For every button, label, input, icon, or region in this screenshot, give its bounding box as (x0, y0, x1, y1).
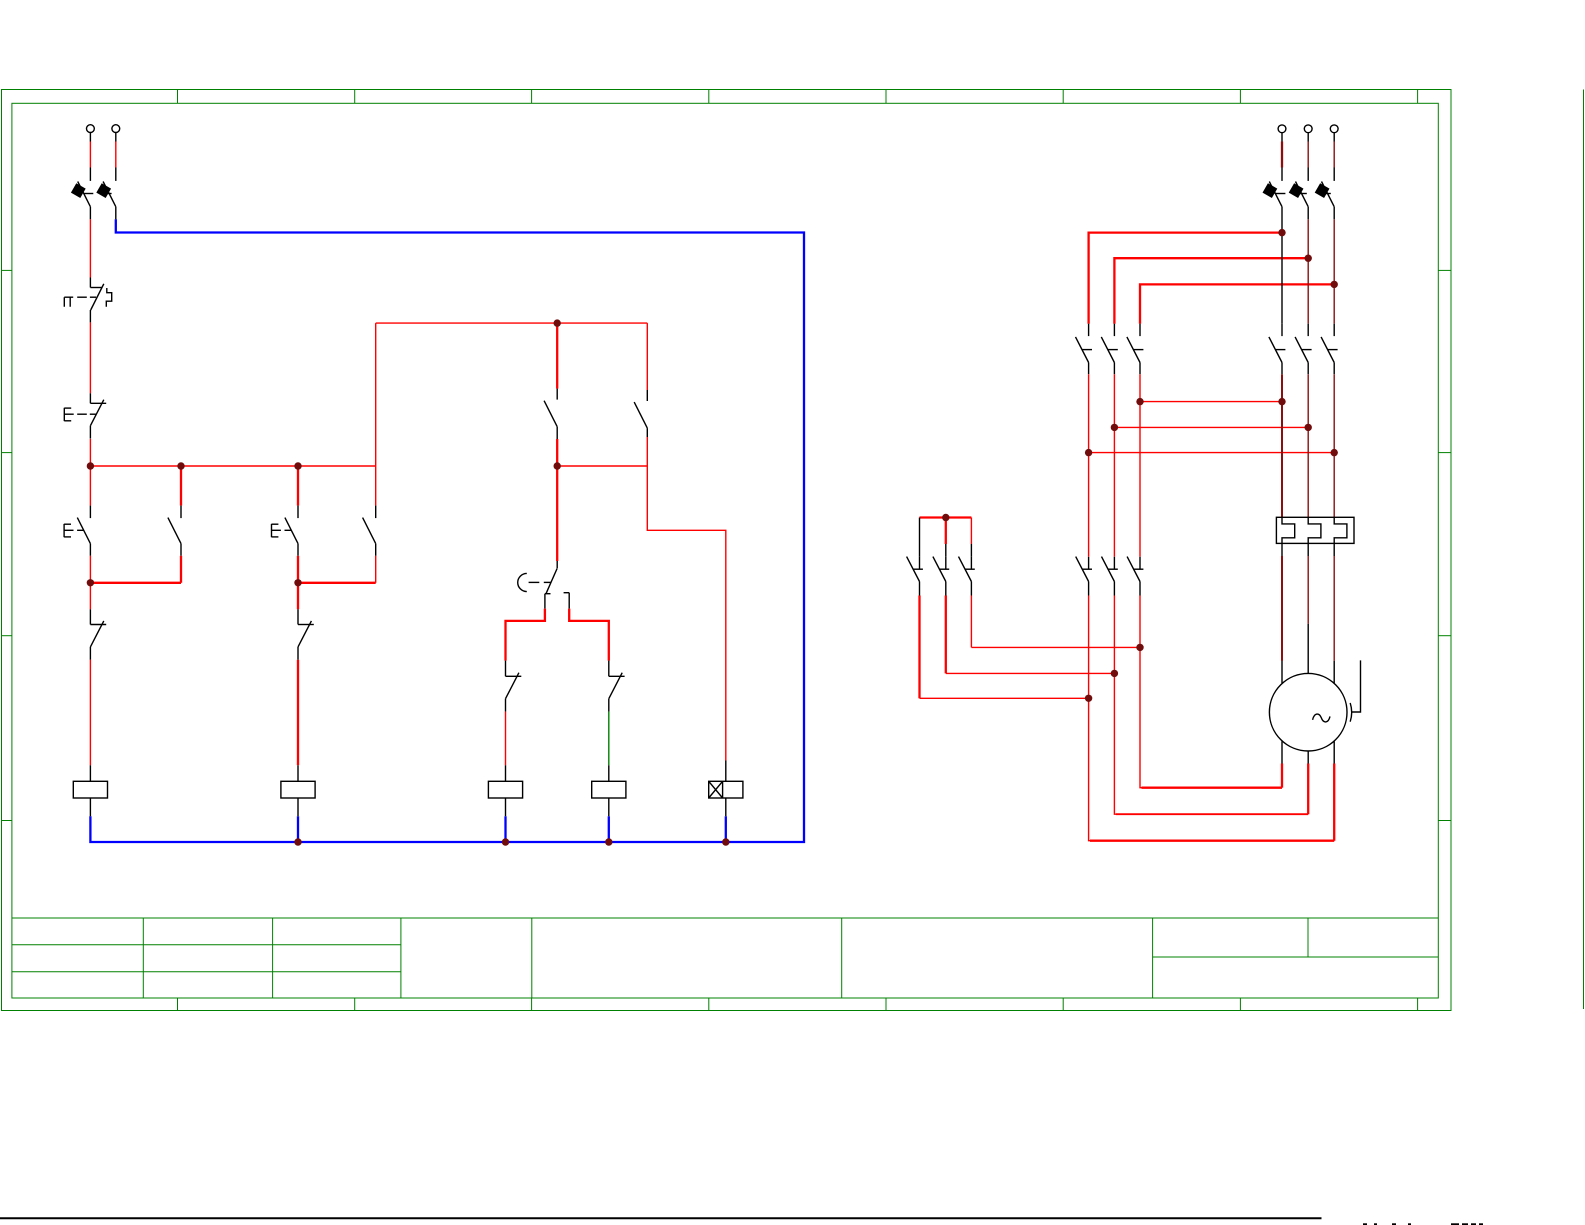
wire main-3 to FR (1333, 374, 1335, 517)
control rail left (90, 465, 375, 467)
wire FR to SB1 (89, 322, 91, 393)
contactor KM-star pole 2 (933, 557, 949, 596)
node upper rail (554, 319, 561, 326)
tap wire phase1 (1089, 233, 1282, 324)
aux contact KM1 (NO) (168, 466, 181, 583)
wire star3 link (970, 596, 972, 648)
node rail-K1aux (177, 462, 184, 469)
wire SB4-NC to KM4 branch (506, 609, 545, 661)
wire phase to FR (89, 207, 91, 220)
wire delta2 to motor V2 (1113, 596, 1115, 674)
rail KM1 seal-in (90, 582, 181, 584)
contactor KM-delta pole 2 (1101, 324, 1118, 375)
contactor KM2-row pole 3 (1127, 557, 1143, 596)
overload relay FR (1276, 517, 1354, 543)
terminal L1 (1278, 125, 1286, 133)
node N-lamp (722, 838, 729, 845)
node tap3 (1331, 281, 1338, 288)
motor earth arc (1350, 703, 1351, 722)
control rail right (557, 465, 647, 467)
wire delta-3 mid (1139, 374, 1141, 557)
wire QF2-3 down (1333, 207, 1335, 220)
contactor KM-main pole 2 (1295, 324, 1312, 375)
wire to coil KM1 (89, 660, 91, 766)
node N-KM2 (294, 838, 301, 845)
wire lamp to N (725, 798, 727, 816)
wire rail to lamp branch (647, 466, 726, 761)
breaker QF2 pole 3 (1315, 182, 1334, 207)
indicator lamp HL (709, 761, 743, 799)
wire star2 link (945, 596, 947, 674)
link row B (1114, 426, 1308, 428)
wire main-1 to FR (1281, 374, 1283, 517)
upper rail (376, 322, 648, 324)
wire L2 to KM main (1307, 258, 1309, 324)
wire star pole3 (970, 518, 972, 545)
node KM1 branch (87, 579, 94, 586)
interlock contact KM3 (NC) (609, 661, 625, 712)
motor M (1269, 673, 1347, 751)
aux contact KM3 (NO) (544, 323, 557, 466)
contactor KM2-row pole 1 (1076, 557, 1092, 596)
stop button SB1 (NC) (64, 393, 106, 438)
wire star pole2 (945, 518, 947, 545)
motor lead V2 (1307, 751, 1309, 764)
wire L3 drop (1333, 142, 1335, 168)
wire coil KM1 to N (89, 798, 91, 816)
interlock contact KM2 (NC) (90, 583, 106, 660)
wire SB4-NO to KM3 branch (569, 609, 609, 661)
wire L3 to KM main (1333, 284, 1335, 323)
wire QF2-1 down (1281, 207, 1283, 233)
wire main-2 to FR (1307, 374, 1309, 517)
tap wire phase2 (1114, 258, 1308, 324)
interlock contact KM4 (NC) (506, 661, 522, 712)
link row A (1140, 401, 1282, 403)
start button SB3 (NO) (272, 466, 299, 556)
wire SB3 to node (297, 556, 299, 583)
earth wire (1352, 660, 1361, 712)
node N-KM3 (502, 838, 509, 845)
wire SB2 to node (89, 556, 91, 583)
wire coil KM3 to N (505, 798, 507, 816)
wire SB1 to rail (89, 439, 91, 466)
wire L2 drop (1307, 142, 1309, 168)
wire neutral (blue loop) (90, 219, 804, 842)
node rail-SB3 (294, 462, 301, 469)
motor lead U2 (1281, 741, 1283, 763)
coil KM1 (73, 781, 107, 798)
wire coil KM2 to N (297, 798, 299, 816)
breaker QF1 pole 2 (96, 182, 115, 207)
wire L drop (89, 142, 91, 168)
node N-KM4 (605, 838, 612, 845)
tap wire phase3 (1140, 284, 1334, 323)
node B2 (1305, 424, 1312, 431)
aux contact KM2 (NO) (363, 323, 376, 583)
contactor KM-main pole 1 (1269, 324, 1286, 375)
contactor KM-star pole 1 (907, 557, 923, 596)
wire coil KM4 to N (608, 798, 610, 816)
node star point (942, 514, 949, 521)
wire FR2 to motor (1307, 543, 1309, 556)
thermal overload contact FR (64, 278, 111, 323)
node A1 (1136, 398, 1143, 405)
wire L1 to KM main (1281, 233, 1283, 324)
wire QF2-2 down (1307, 207, 1309, 220)
contactor KM-main pole 3 (1321, 324, 1338, 375)
wire L1 drop (1281, 142, 1283, 168)
node star1 (1085, 695, 1092, 702)
coil KM2 (281, 781, 315, 798)
motor lead W2 (1333, 741, 1335, 763)
node KM2 branch (294, 579, 301, 586)
node rail-K3 (554, 462, 561, 469)
wire delta-2 mid (1113, 374, 1115, 557)
terminal N (112, 125, 120, 133)
node B1 (1111, 424, 1118, 431)
contactor KM2-row pole 2 (1102, 557, 1118, 596)
wire delta3 to motor U2 (1139, 596, 1141, 648)
node star2 (1111, 670, 1118, 677)
node star3 (1136, 644, 1143, 651)
aux contact KM4 (NO) (634, 323, 647, 466)
changeover button SB4 (518, 466, 569, 609)
node rail-SB2 (87, 462, 94, 469)
wire star pole1 (919, 518, 921, 557)
wire FR3 to motor (1333, 543, 1335, 556)
start button SB2 (NO) (64, 466, 90, 556)
contactor KM-delta pole 1 (1076, 324, 1093, 375)
terminal L3 (1330, 125, 1338, 133)
interlock contact KM1 (NC) (298, 583, 314, 660)
wire delta1 to motor W2 (1088, 596, 1090, 699)
terminal L2 (1304, 125, 1312, 133)
node C2 (1331, 449, 1338, 456)
wire star1 link (918, 596, 920, 699)
node tap2 (1305, 255, 1312, 262)
contactor KM-star pole 3 (959, 557, 975, 596)
breaker QF2 pole 2 (1289, 182, 1308, 207)
node tap1 (1278, 229, 1285, 236)
rail KM2 seal-in (298, 582, 376, 584)
terminal L (87, 125, 95, 133)
wire to coil KM2 (297, 660, 299, 766)
star point rail (920, 516, 972, 518)
coil KM4 (592, 781, 626, 798)
breaker QF1 pole 1 (71, 182, 93, 207)
wire to coil KM4 (green) (608, 712, 610, 766)
wire FR1 to motor (1281, 543, 1283, 556)
link row C (1089, 452, 1335, 454)
wire delta-1 mid (1088, 374, 1090, 557)
wire to coil KM3 (505, 712, 507, 766)
contactor KM-delta pole 3 (1127, 324, 1144, 375)
node A2 (1278, 398, 1285, 405)
wire N drop (115, 142, 117, 168)
coil KM3 (488, 781, 522, 798)
node C1 (1085, 449, 1092, 456)
breaker QF2 pole 1 (1263, 182, 1286, 207)
